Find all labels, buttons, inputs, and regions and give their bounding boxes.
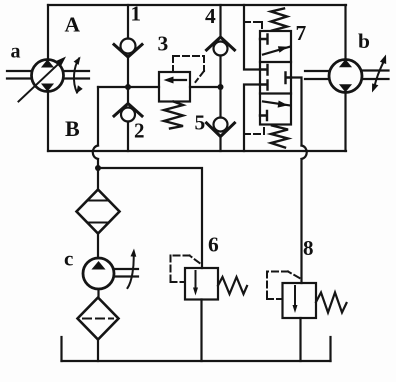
wire line A (top main line) [48,4,346,6]
wire left edge lower (pump a to line B) [47,92,49,152]
svg-text:1: 1 [131,2,142,26]
svg-text:8: 8 [303,236,314,260]
svg-text:5: 5 [195,111,206,135]
pilot line bottom of valve 7 [244,125,264,135]
node junction (220.5,87) [218,84,224,90]
svg-text:c: c [64,247,73,271]
wire left edge upper (line A to pump a) [47,5,49,60]
wire check2 to line B [127,122,129,152]
wire node to valve 6 branch [98,168,202,268]
wire check4 to node [219,56,221,88]
wire right of valve 3 [190,86,221,88]
wire valve 7 lower-left port to line B [244,85,260,152]
motor b [305,55,389,93]
svg-text:7: 7 [296,21,307,45]
check valve 4 [207,37,235,56]
wire valve 7 right port down with hop over line B [291,78,302,146]
pump c [83,249,138,290]
wire valve 8 to tank [299,318,301,361]
wire vertical through check valves 1 and 2 (x=128) [127,5,129,39]
wire vertical through check valves 4 and 5 (x=220.5) [219,5,221,37]
node junction (98,168) [95,165,101,171]
filter 2 [78,298,119,340]
valve 3 (pressure reducing valve) [159,56,204,129]
wire filter2 to tank line [97,340,99,362]
tank line [62,360,331,362]
wire valve3 down-leg (x=98) with hop over line B [97,87,99,146]
wire right edge upper (line A to motor b) [344,5,346,60]
pump a [7,57,89,102]
pilot line top of valve 7 [244,22,262,31]
svg-text:b: b [358,29,370,53]
wire pump c to filter 2 [97,289,99,298]
wire node to check valve 2 [127,87,129,104]
wire left of valve 3 [98,86,159,88]
svg-text:2: 2 [134,119,145,143]
valve 8 (relief valve) [267,272,347,319]
node junction (128,87) [125,84,131,90]
svg-text:A: A [65,13,81,37]
svg-text:6: 6 [208,233,219,257]
filter 1 (cooler diamond) [77,168,120,234]
wire check1 to node [127,57,129,87]
check valve 1 [114,39,142,58]
valve 6 (relief valve) [171,256,248,300]
svg-text:4: 4 [205,4,216,28]
wire check5 to line B [219,137,221,152]
svg-text:3: 3 [158,32,169,56]
svg-text:a: a [11,41,21,63]
wire valve 6 to tank [200,300,202,362]
svg-text:B: B [65,116,80,141]
wire line A to valve 7 upper-left port [244,5,260,70]
check valve 5 [207,118,235,137]
wire right edge lower (motor b to line B) [344,93,346,152]
check valve 2 [114,104,142,122]
wire node to check valve 5 [219,87,221,118]
wire filter1 to pump c [97,234,99,259]
valve 7 (pilot operated directional valve) [260,9,291,148]
wire line B (bottom main line) [48,150,346,152]
